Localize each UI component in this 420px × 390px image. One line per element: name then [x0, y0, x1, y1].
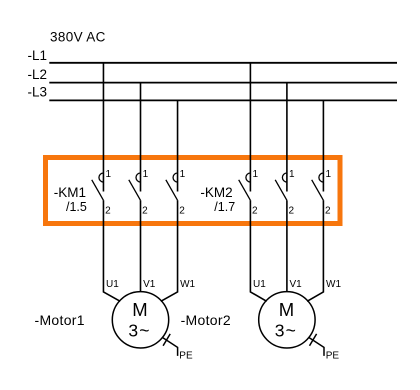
wire L2 to KM1 pin 3 [140, 83, 142, 192]
svg-text:-L1: -L1 [28, 48, 48, 63]
svg-text:/1.5: /1.5 [66, 200, 87, 214]
contactor highlight box around KM1/KM2 [46, 158, 341, 224]
wire KM1 pin 4 to motor1 V1 [140, 200, 142, 291]
svg-text:1: 1 [289, 169, 295, 180]
bus wire L2 [49, 82, 397, 84]
PE tick motor1 [163, 334, 170, 346]
svg-text:-Motor2: -Motor2 [181, 312, 231, 328]
wire KM1 pin 6 to motor1 W1 [161, 200, 178, 301]
svg-text:-Motor1: -Motor1 [35, 312, 85, 328]
wire L3 to KM1 pin 5 [177, 100, 179, 191]
contactor KM1 pole 3 [166, 169, 186, 217]
svg-text:U1: U1 [253, 279, 266, 290]
svg-text:-KM2: -KM2 [200, 185, 232, 200]
svg-text:V1: V1 [290, 279, 303, 290]
motor M2 circle [259, 292, 315, 348]
wire KM2 pin 6 to motor2 W1 [307, 200, 323, 301]
svg-text:1: 1 [106, 169, 112, 180]
svg-text:/1.7: /1.7 [214, 200, 235, 214]
wire L1 to KM2 pin 1 [249, 63, 251, 192]
svg-text:M: M [132, 299, 147, 320]
svg-text:2: 2 [179, 206, 185, 217]
svg-text:PE: PE [326, 351, 340, 362]
contactor KM2 pole 3 [312, 169, 332, 217]
contactor KM1 pole 1 [92, 169, 112, 217]
svg-text:-L2: -L2 [28, 67, 48, 82]
bus wire L3 [49, 99, 397, 101]
PE wire motor1 [163, 338, 178, 356]
svg-text:2: 2 [289, 206, 295, 217]
wire KM1 pin 2 to motor1 U1 [103, 200, 120, 301]
contactor KM2 pole 2 [275, 169, 295, 217]
svg-text:2: 2 [105, 206, 111, 217]
wire L1 to KM1 pin 1 [102, 63, 104, 192]
svg-text:-L3: -L3 [28, 85, 48, 100]
motor M1 circle [112, 292, 168, 348]
bus wire L1 [49, 62, 397, 64]
wire KM2 pin 2 to motor2 U1 [250, 200, 266, 301]
svg-text:3~: 3~ [128, 320, 150, 340]
svg-text:2: 2 [142, 206, 148, 217]
svg-text:W1: W1 [180, 279, 195, 290]
svg-text:2: 2 [325, 206, 331, 217]
PE tick motor2 [310, 334, 317, 346]
contactor KM1 pole 2 [129, 169, 149, 217]
svg-text:W1: W1 [326, 279, 341, 290]
svg-text:3~: 3~ [275, 320, 297, 340]
svg-text:2: 2 [252, 206, 258, 217]
svg-text:1: 1 [253, 169, 259, 180]
PE wire motor2 [309, 338, 324, 356]
svg-text:M: M [279, 299, 294, 320]
svg-text:PE: PE [179, 351, 193, 362]
svg-text:-KM1: -KM1 [54, 185, 86, 200]
wire L2 to KM2 pin 3 [286, 83, 288, 192]
svg-text:V1: V1 [143, 279, 156, 290]
svg-text:1: 1 [180, 169, 186, 180]
svg-text:U1: U1 [106, 279, 119, 290]
contactor KM2 pole 1 [239, 169, 259, 217]
svg-text:380V AC: 380V AC [50, 29, 106, 44]
svg-text:1: 1 [143, 169, 149, 180]
wire KM2 pin 4 to motor2 V1 [286, 200, 288, 291]
wire L3 to KM2 pin 5 [322, 100, 324, 191]
svg-text:1: 1 [326, 169, 332, 180]
